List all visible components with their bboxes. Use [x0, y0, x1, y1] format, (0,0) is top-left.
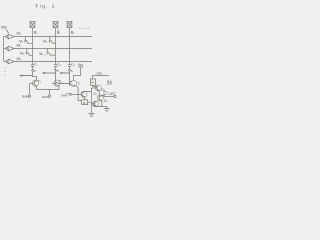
terminal R/W2 — [49, 90, 51, 95]
wire leader from WD label to driver 1 — [6, 29, 9, 33]
wire word line W1 — [14, 36, 92, 38]
transistor T3 — [71, 80, 77, 86]
svg-text:M₂₋₂: M₂₋₂ — [40, 52, 48, 56]
terminal R/W1 — [29, 84, 31, 95]
wire word line W3 — [14, 61, 92, 63]
wire R2 to ground riser — [88, 101, 92, 103]
svg-text:W₁: W₁ — [17, 31, 22, 35]
wire word line W2 — [14, 48, 92, 50]
svg-text:W₂: W₂ — [17, 43, 22, 47]
svg-text:Vсс: Vсс — [103, 90, 108, 94]
speck — [105, 6, 106, 7]
wire T3 emitter to R2 — [78, 97, 85, 101]
svg-text:Vсс: Vсс — [78, 63, 84, 67]
transistor T2 — [54, 80, 60, 86]
transistor Q6 — [97, 95, 103, 101]
ground under riser — [88, 113, 94, 116]
resistor R1 — [90, 79, 95, 85]
svg-text:a₂: a₂ — [57, 69, 59, 72]
terminal a3 on bit line B2 — [69, 69, 71, 71]
svg-text:Vсс: Vсс — [97, 71, 103, 75]
svg-text:R/W₂: R/W₂ — [42, 95, 50, 99]
wire ground riser — [91, 88, 93, 113]
wire write line to B1bar with arrowhead — [42, 72, 56, 74]
wire left bus continuation dots — [4, 68, 6, 78]
terminal OUT — [114, 95, 116, 97]
svg-text:Fig. 1: Fig. 1 — [36, 4, 56, 9]
speck — [105, 17, 106, 18]
capacitor C2 — [54, 65, 57, 67]
transistor Q4 — [95, 85, 101, 91]
svg-text:B₂: B₂ — [71, 30, 75, 34]
ground under Q6 — [104, 109, 110, 112]
capacitor C1 — [31, 65, 34, 67]
wire common emitter line — [37, 89, 60, 91]
wire bit line B2 — [69, 28, 71, 74]
transistor M1-1 — [25, 37, 33, 44]
speck — [28, 100, 32, 102]
svg-text:W₃: W₃ — [17, 57, 22, 61]
svg-text:M₁₋₁: M₁₋₁ — [19, 40, 26, 44]
word driver 3 — [4, 61, 7, 63]
wire left input bus — [3, 37, 5, 62]
svg-text:R/W₁: R/W₁ — [22, 95, 29, 99]
svg-text:WD: WD — [1, 26, 7, 30]
transistor Q3 — [81, 91, 87, 97]
transistor T1 — [32, 80, 38, 86]
load box on bit line B1bar — [53, 22, 58, 28]
transistor M2-2 — [47, 49, 55, 56]
wire bit line B1 — [32, 28, 34, 76]
transistor Q5 — [93, 101, 99, 107]
capacitor C3 — [68, 65, 71, 67]
wire OUT line — [103, 95, 114, 97]
wire write line to B1 with arrowhead — [20, 75, 33, 77]
load box on bit line B1 — [30, 22, 35, 28]
terminal a1 on bit line B1 — [32, 69, 34, 71]
wire write line to B2 with arrowhead — [60, 72, 70, 74]
svg-text:SA: SA — [107, 80, 113, 84]
svg-text:M₁₋₂: M₁₋₂ — [43, 39, 50, 43]
transistor M1-2 — [49, 37, 55, 44]
wire T1 base lead — [30, 83, 35, 85]
svg-text:OUT: OUT — [108, 92, 115, 96]
word driver 2 — [4, 48, 7, 50]
wire bit line B1bar — [55, 28, 57, 74]
resistor R2 — [82, 100, 88, 105]
svg-text:a₁: a₁ — [34, 69, 36, 72]
wire array continuation dots — [80, 27, 90, 29]
wire emitter line to ground — [97, 107, 107, 109]
svg-text:R₁: R₁ — [91, 81, 94, 85]
svg-text:C₃: C₃ — [71, 62, 75, 66]
word driver 1 — [4, 36, 7, 38]
svg-text:a₃: a₃ — [71, 69, 74, 72]
svg-text:T₁: T₁ — [38, 80, 41, 84]
svg-text:R/W: R/W — [62, 93, 68, 97]
load box on bit line B2 — [67, 22, 72, 28]
svg-text:M₂₋₁: M₂₋₁ — [20, 51, 27, 55]
wire T2 base lead — [52, 83, 56, 85]
terminal a2 on bit line B1bar — [55, 69, 57, 71]
transistor M2-1 — [26, 49, 32, 56]
